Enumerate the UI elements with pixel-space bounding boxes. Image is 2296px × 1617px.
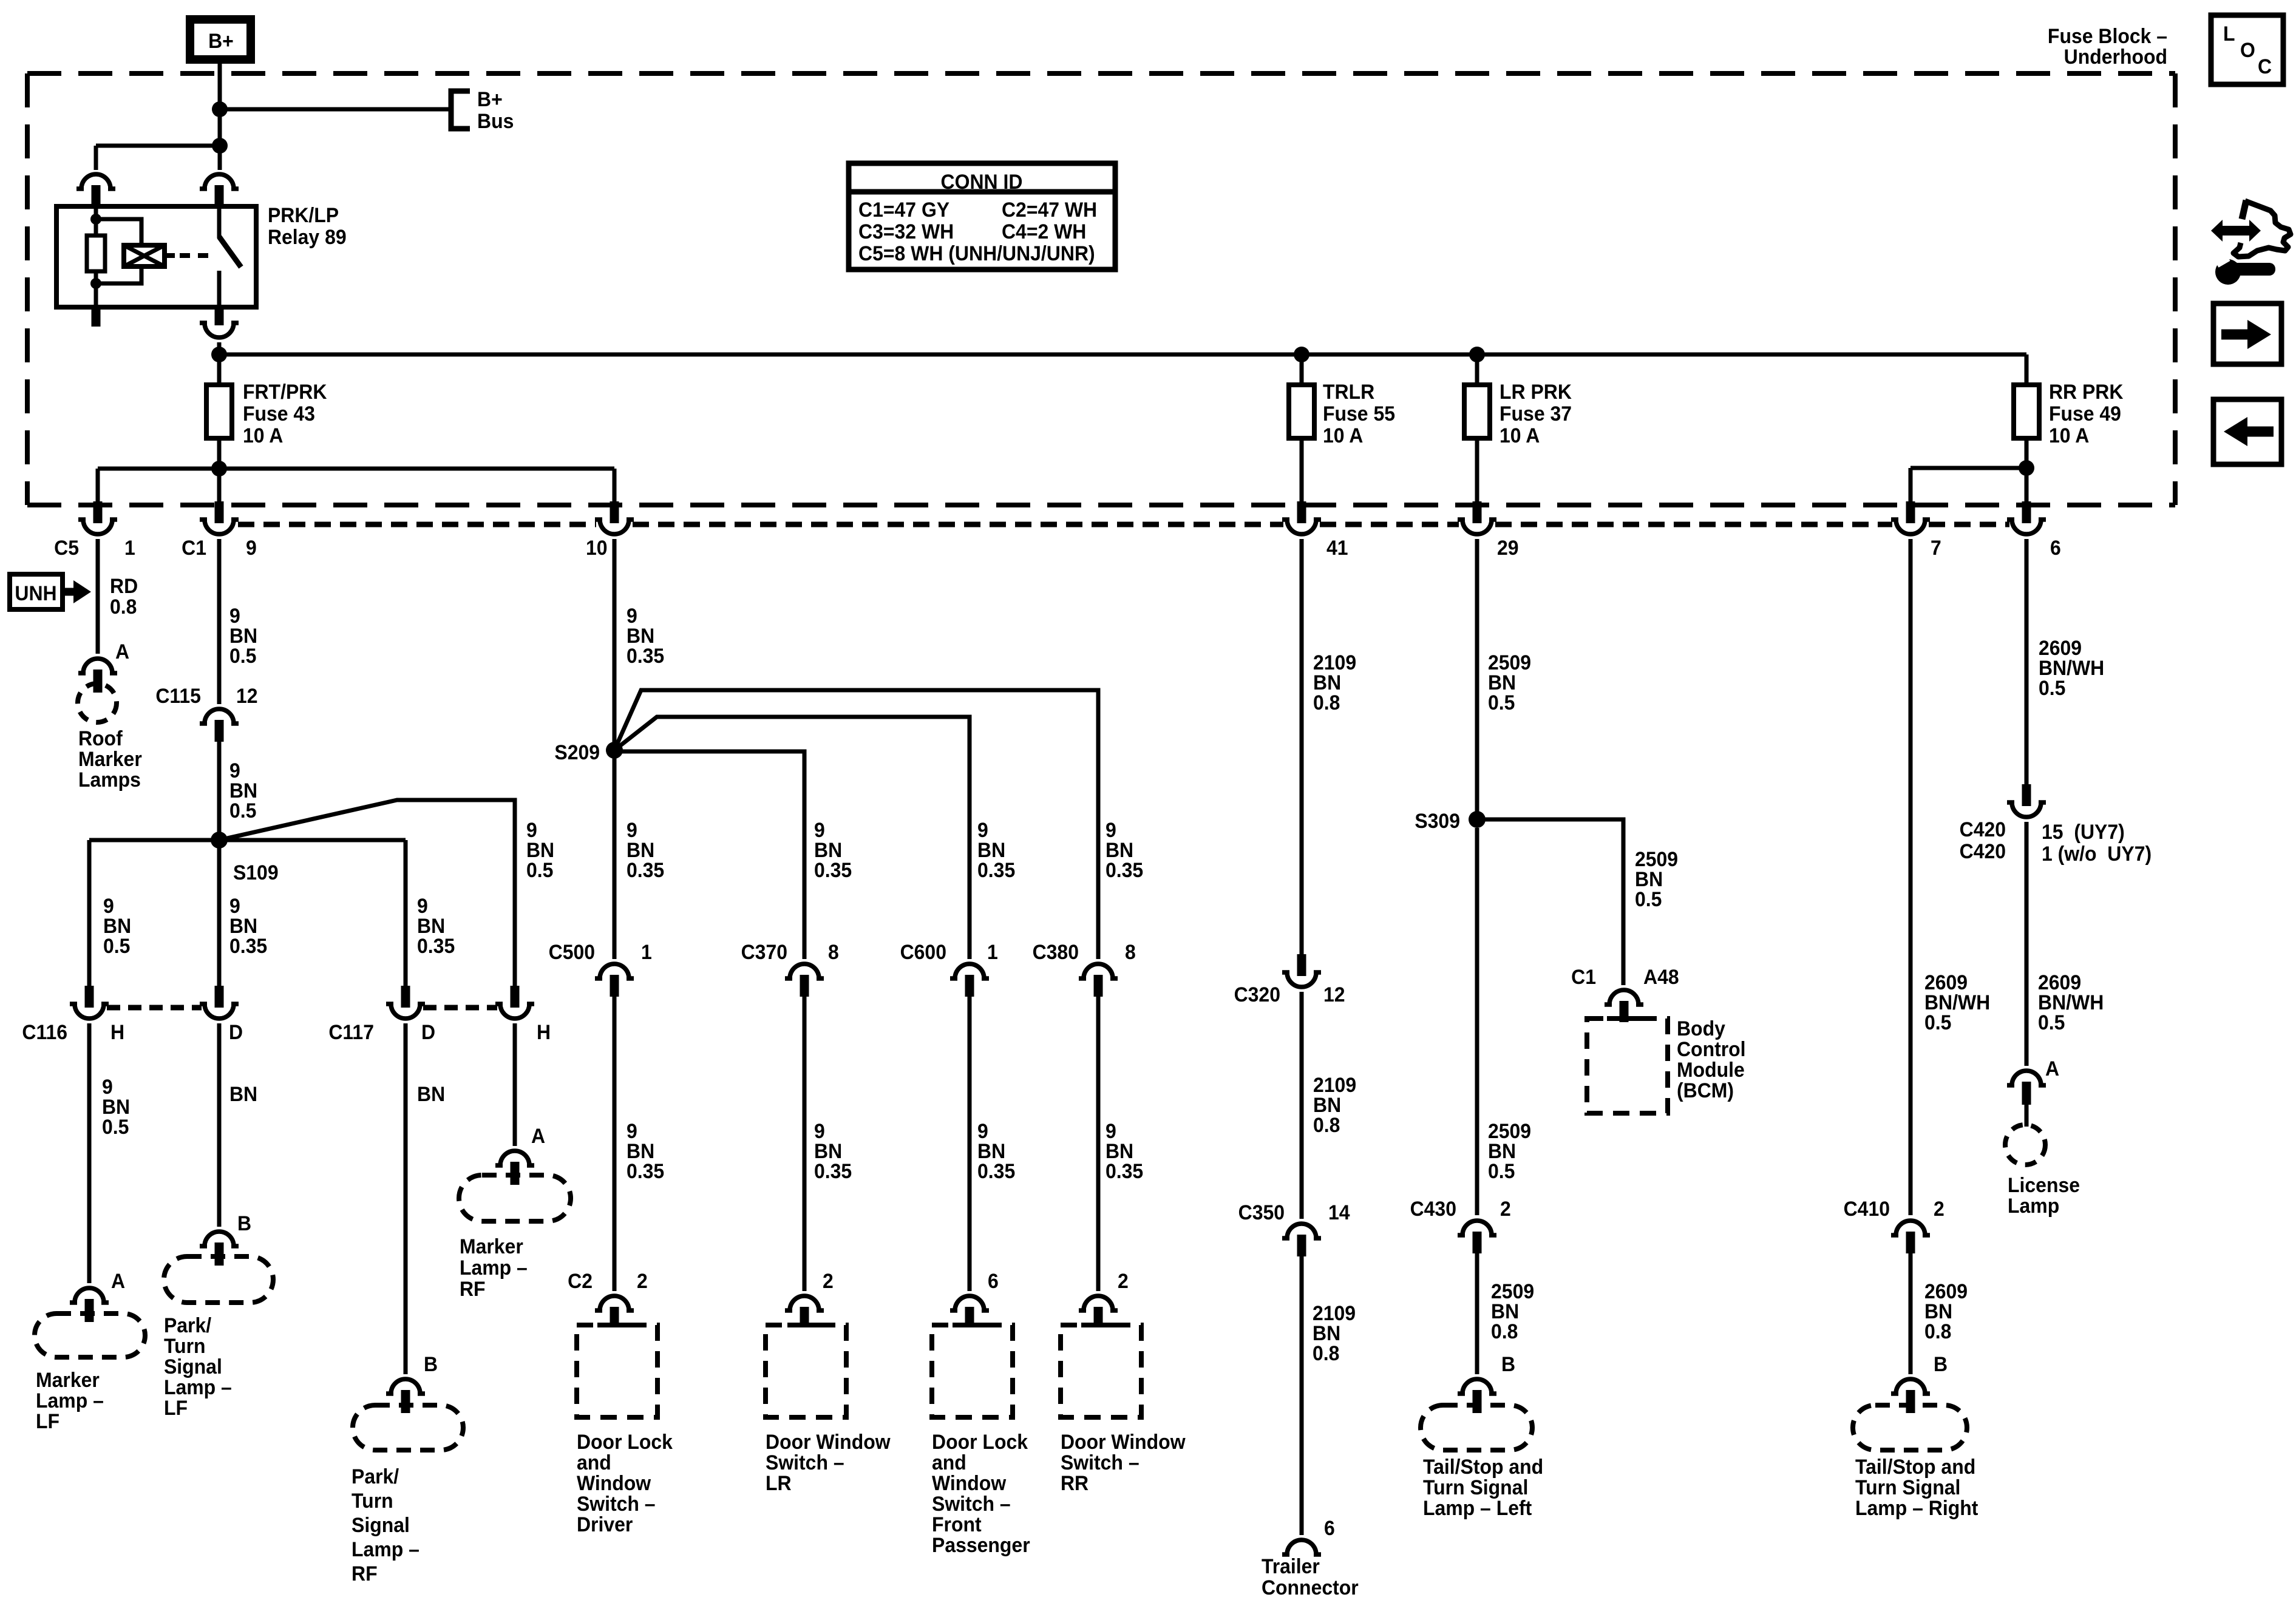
label TRLR Fuse 55 value label <box>1323 380 1395 447</box>
relay actuator dashed link <box>180 253 214 258</box>
label terminal B tail left <box>1501 1352 1515 1375</box>
svg-text:C380: C380 <box>1033 940 1079 963</box>
svg-text:0.35: 0.35 <box>814 1159 852 1182</box>
wire coil wire lower <box>94 271 98 307</box>
svg-text:Switch –: Switch – <box>577 1492 656 1515</box>
fuse RR PRK Fuse 49 <box>2014 385 2039 438</box>
wire fuse 43 drop <box>217 438 222 469</box>
fuse block underhood dashed border <box>27 73 2175 505</box>
connector BCM pin A48 <box>1605 990 1643 1022</box>
svg-text:Turn Signal: Turn Signal <box>1855 1476 1960 1499</box>
svg-text:C116: C116 <box>22 1020 67 1043</box>
label BCM label <box>1677 1017 1746 1102</box>
svg-text:Passenger: Passenger <box>932 1533 1030 1556</box>
label exit pin 7 <box>1931 536 1941 559</box>
svg-text:Signal: Signal <box>352 1513 410 1536</box>
wire relay output drop <box>217 342 222 385</box>
svg-text:A: A <box>111 1269 125 1292</box>
wire license stub <box>2025 1105 2029 1127</box>
label C380 pin 8 <box>1125 940 1136 963</box>
wire solenoid loop top <box>96 219 141 245</box>
connector C410 pin 2 <box>1891 1221 1930 1253</box>
svg-text:Window: Window <box>577 1471 651 1494</box>
connector marker RF terminal A <box>495 1151 534 1185</box>
svg-text:RR: RR <box>1061 1471 1089 1494</box>
label C320 pin 12 label <box>1323 983 1345 1006</box>
svg-text:0.8: 0.8 <box>1924 1320 1951 1343</box>
svg-text:0.35: 0.35 <box>627 1159 664 1182</box>
C117 harness dashed tie <box>423 1005 497 1011</box>
svg-text:C1: C1 <box>182 536 206 559</box>
svg-text:H: H <box>537 1020 551 1043</box>
wire S309 feed <box>1475 539 1479 819</box>
svg-text:2: 2 <box>637 1269 648 1292</box>
connector C5 pin 1 <box>78 501 117 534</box>
label RR switch label <box>1061 1430 1186 1494</box>
svg-text:Connector: Connector <box>1262 1576 1359 1599</box>
label wire 2609 BN WH a <box>1924 971 1990 1034</box>
svg-text:C420: C420 <box>1960 818 2006 841</box>
svg-text:C420: C420 <box>1960 839 2006 863</box>
label C2 label <box>568 1269 593 1292</box>
svg-text:0.5: 0.5 <box>2039 676 2065 699</box>
C116 harness dashed tie <box>107 1005 202 1011</box>
label wire 9 BN 0.35 e <box>814 818 852 881</box>
svg-text:A48: A48 <box>1643 965 1679 988</box>
connector C320 pin 12 <box>1282 954 1321 987</box>
svg-text:Module: Module <box>1677 1058 1745 1081</box>
connector tail left terminal B <box>1458 1379 1496 1413</box>
svg-text:Body: Body <box>1677 1017 1726 1040</box>
svg-text:Switch –: Switch – <box>766 1451 844 1474</box>
label relay label <box>268 203 347 248</box>
label C117 D <box>421 1020 435 1043</box>
label LR switch label <box>766 1430 891 1494</box>
label terminal A roof <box>115 640 129 663</box>
label C430 pin 2 <box>1500 1197 1511 1220</box>
svg-text:0.35: 0.35 <box>1106 1159 1143 1182</box>
lamp outline Roof Marker Lamps <box>78 683 117 722</box>
label tail right label <box>1855 1455 1978 1519</box>
wire driver switch drop <box>613 997 617 1291</box>
connector C420 pin 15 <box>2007 784 2046 817</box>
svg-text:10 A: 10 A <box>1323 424 1363 447</box>
label wire BN a <box>229 1082 257 1105</box>
svg-text:Lamp –: Lamp – <box>460 1256 528 1279</box>
svg-text:UNH: UNH <box>15 581 56 605</box>
svg-text:C370: C370 <box>741 940 787 963</box>
wire tail left feed <box>1475 1253 1479 1374</box>
connector marker LF terminal A <box>70 1288 109 1322</box>
node coil node bottom <box>90 278 101 289</box>
connector door window LR pin 2 <box>785 1296 824 1327</box>
label C370 pin 8 <box>828 940 839 963</box>
connector door lock FP pin 6 <box>950 1296 989 1327</box>
svg-text:Trailer: Trailer <box>1262 1554 1320 1578</box>
node fuse feed junction <box>211 347 227 362</box>
label C370 label <box>741 940 787 963</box>
svg-text:LR PRK: LR PRK <box>1500 380 1572 403</box>
label wire BN b <box>417 1082 445 1105</box>
label C500 pin 1 <box>641 940 652 963</box>
svg-text:8: 8 <box>828 940 839 963</box>
svg-text:C3=32 WH: C3=32 WH <box>858 220 954 243</box>
label Marker Lamp LF label <box>36 1368 104 1432</box>
wire front park distribution <box>98 467 614 471</box>
wire C500 drop <box>613 758 617 959</box>
fuse LR PRK Fuse 37 <box>1464 385 1490 438</box>
node TRLR tap <box>1294 347 1309 362</box>
component box Body Control Module BCM <box>1587 1019 1668 1113</box>
label C115 pin 12 <box>236 684 258 707</box>
svg-text:1: 1 <box>641 940 652 963</box>
node relay feed junction <box>212 138 228 154</box>
svg-text:Door Lock: Door Lock <box>577 1430 673 1453</box>
svg-text:Turn: Turn <box>164 1334 206 1357</box>
svg-text:D: D <box>421 1020 435 1043</box>
svg-text:B: B <box>1934 1352 1948 1375</box>
svg-text:2: 2 <box>1934 1197 1944 1220</box>
svg-text:0.5: 0.5 <box>1924 1011 1951 1034</box>
svg-text:C5=8 WH (UNH/UNJ/UNR): C5=8 WH (UNH/UNJ/UNR) <box>858 242 1095 265</box>
connector relay output <box>200 323 239 337</box>
relay switch blade <box>219 237 241 267</box>
svg-text:2: 2 <box>1500 1197 1511 1220</box>
svg-text:S209: S209 <box>554 741 600 764</box>
svg-text:Lamp –: Lamp – <box>36 1389 104 1412</box>
wire C600 branch <box>614 717 970 959</box>
component box Door Lock and Window Switch Driver <box>577 1325 657 1417</box>
wire fuse 55 drop <box>1300 438 1304 503</box>
wire S109 feed <box>217 742 222 840</box>
lamp outline Park Turn Signal Lamp RF <box>353 1405 463 1450</box>
wire C420 feed <box>2025 539 2029 784</box>
svg-text:Tail/Stop and: Tail/Stop and <box>1855 1455 1975 1478</box>
svg-text:7: 7 <box>1931 536 1941 559</box>
svg-text:0.5: 0.5 <box>1488 691 1515 714</box>
label B+ Bus label <box>477 87 514 132</box>
svg-text:1: 1 <box>987 940 998 963</box>
label exit pin 10 <box>586 536 608 559</box>
svg-text:(BCM): (BCM) <box>1677 1079 1734 1102</box>
connector C1 pin 41 <box>1282 501 1321 534</box>
svg-text:0.5: 0.5 <box>1488 1159 1515 1182</box>
wire marker RF feed <box>513 1023 517 1146</box>
svg-text:0.5: 0.5 <box>229 799 256 822</box>
wire main feed bus <box>219 353 2026 357</box>
svg-text:C320: C320 <box>1234 983 1280 1006</box>
svg-text:Turn: Turn <box>352 1489 393 1512</box>
lamp outline License Lamp <box>2005 1125 2045 1165</box>
wire fuse 49 drop <box>2025 438 2029 468</box>
wire B+ feed drop <box>218 59 222 146</box>
label Park Turn RF label <box>352 1465 419 1585</box>
label exit pin 9 <box>246 536 257 559</box>
svg-text:Lamp – Left: Lamp – Left <box>1423 1496 1532 1519</box>
svg-text:C117: C117 <box>328 1020 374 1043</box>
node splice S309 <box>1469 811 1486 828</box>
label wire 9 BN 0.35 h <box>627 1119 664 1182</box>
label wire 2109 BN 0.8 a <box>1313 651 1356 714</box>
label BCM pin A48 <box>1643 965 1679 988</box>
label C380 label <box>1033 940 1079 963</box>
connector door window RR pin 2 <box>1079 1296 1118 1327</box>
svg-text:Relay 89: Relay 89 <box>268 225 347 248</box>
svg-text:LF: LF <box>164 1396 188 1419</box>
svg-text:C2: C2 <box>568 1269 593 1292</box>
connector C116 pin H <box>70 986 109 1019</box>
label terminal B park LF <box>237 1212 251 1235</box>
label trailer pin 6 <box>1324 1516 1335 1539</box>
connector C350 pin 14 <box>1282 1224 1321 1256</box>
wire coil wire upper <box>94 206 98 237</box>
connector C116 pin D <box>200 986 239 1019</box>
svg-text:B: B <box>237 1212 251 1235</box>
wire C115 feed <box>217 539 222 704</box>
svg-text:0.35: 0.35 <box>627 858 664 881</box>
connector C600 pin 1 <box>950 964 989 997</box>
label driver switch label <box>577 1430 673 1536</box>
node B+ bus junction <box>212 101 228 117</box>
connector body dotted line <box>238 522 596 527</box>
lamp outline Marker Lamp LF <box>35 1314 145 1357</box>
wire C1 drop <box>217 469 222 503</box>
svg-text:0.5: 0.5 <box>2038 1011 2065 1034</box>
svg-text:2: 2 <box>823 1269 834 1292</box>
label C410 pin 2 <box>1934 1197 1944 1220</box>
wire B+ bus lead <box>220 107 449 112</box>
svg-text:B+: B+ <box>477 87 503 110</box>
connector relay pin switch top <box>200 174 239 207</box>
label C410 label <box>1844 1197 1890 1220</box>
svg-text:Marker: Marker <box>36 1368 100 1391</box>
label C320 label <box>1234 983 1280 1006</box>
svg-text:0.35: 0.35 <box>229 934 267 957</box>
resistor relay coil resistor <box>87 236 105 271</box>
connector B+ Bus bracket <box>451 91 470 129</box>
wire RR switch drop <box>1096 997 1101 1291</box>
svg-text:Signal: Signal <box>164 1355 222 1378</box>
svg-text:10 A: 10 A <box>2049 424 2089 447</box>
label exit pin 6 <box>2050 536 2061 559</box>
wire relay coil feed <box>96 144 220 148</box>
svg-text:0.5: 0.5 <box>102 1115 129 1138</box>
relay pin coil bottom stub <box>92 307 101 327</box>
svg-text:CONN ID: CONN ID <box>941 170 1023 193</box>
svg-text:A: A <box>531 1124 545 1147</box>
svg-text:0.8: 0.8 <box>1313 691 1340 714</box>
label C420 pin 15 UY7 <box>2042 820 2125 843</box>
locator LOC icon box <box>2211 15 2283 84</box>
back arrow icon <box>2213 399 2281 464</box>
label wire 2109 BN 0.8 b <box>1313 1073 1356 1136</box>
svg-text:A: A <box>2045 1057 2059 1080</box>
wire switch fixed contact top <box>217 206 222 238</box>
wire fuse 37 feed <box>1475 354 1479 385</box>
label wire 9 BN 0.35 c <box>627 604 664 667</box>
label License Lamp label <box>2008 1173 2080 1217</box>
svg-text:Lamp: Lamp <box>2008 1194 2059 1217</box>
svg-text:BN: BN <box>417 1082 445 1105</box>
svg-text:TRLR: TRLR <box>1323 380 1374 403</box>
connector C117 pin D <box>386 986 425 1019</box>
connector trailer connector pin 6 <box>1282 1540 1321 1554</box>
svg-text:Driver: Driver <box>577 1513 633 1536</box>
component box Door Lock and Window Switch Front Passenger <box>932 1325 1013 1417</box>
wire park RF feed <box>404 1023 408 1374</box>
relay pin switch bottom <box>215 307 224 325</box>
lamp outline Marker Lamp RF <box>459 1175 571 1221</box>
connector roof lamp terminal A <box>78 659 117 693</box>
wire solenoid loop bottom <box>96 266 141 283</box>
label C116 H <box>110 1020 124 1043</box>
label C117 H <box>537 1020 551 1043</box>
svg-text:License: License <box>2008 1173 2080 1196</box>
wire pin7 drop <box>1909 468 1913 503</box>
connector C115 pin 12 <box>200 709 239 742</box>
svg-text:10: 10 <box>586 536 608 559</box>
svg-text:RF: RF <box>460 1277 486 1300</box>
fuse FRT/PRK Fuse 43 <box>206 385 232 438</box>
label wire 9 BN 0.5 a <box>229 604 257 667</box>
svg-text:C600: C600 <box>900 940 946 963</box>
label LR PRK Fuse 37 value label <box>1500 380 1572 447</box>
wire solenoid actuator lead <box>165 253 175 258</box>
label wire 9 BN 0.35 f <box>977 818 1015 881</box>
svg-text:Lamp – Right: Lamp – Right <box>1855 1496 1978 1519</box>
label wire 2509 BN 0.5 a <box>1488 651 1531 714</box>
svg-text:6: 6 <box>2050 536 2061 559</box>
label C117 label <box>328 1020 374 1043</box>
label wire 2509 BN 0.5 b <box>1635 847 1678 910</box>
svg-text:B: B <box>424 1352 438 1375</box>
svg-text:Underhood: Underhood <box>2064 45 2167 68</box>
svg-text:10 A: 10 A <box>243 424 283 447</box>
svg-text:9: 9 <box>246 536 257 559</box>
wire coil drop <box>94 146 98 170</box>
label C116 D <box>229 1020 243 1043</box>
svg-text:1: 1 <box>124 536 135 559</box>
svg-text:0.8: 0.8 <box>1491 1320 1518 1343</box>
label exit label C1 <box>182 536 206 559</box>
label wire 9 BN 0.35 j <box>977 1119 1015 1182</box>
label LR pin 2 <box>823 1269 834 1292</box>
svg-text:Fuse 49: Fuse 49 <box>2049 402 2121 425</box>
connector C1 pin 10 <box>595 501 634 534</box>
label exit pin 1 <box>124 536 135 559</box>
node splice S209 <box>606 742 623 759</box>
node LR PRK tap <box>1469 347 1485 362</box>
wire C370 branch <box>614 751 804 959</box>
label wire 9 BN 0.5 b <box>229 759 257 822</box>
svg-text:FRT/PRK: FRT/PRK <box>243 380 327 403</box>
svg-text:Control: Control <box>1677 1037 1746 1060</box>
svg-text:0.35: 0.35 <box>1106 858 1143 881</box>
label tail left label <box>1423 1455 1543 1519</box>
label passenger pin 6 <box>988 1269 999 1292</box>
svg-text:C430: C430 <box>1410 1197 1456 1220</box>
label RR pin 2 <box>1118 1269 1129 1292</box>
svg-text:29: 29 <box>1497 536 1519 559</box>
relay PRK/LP Relay 89 box <box>56 206 256 307</box>
label RR PRK Fuse 49 value label <box>2049 380 2124 447</box>
svg-text:Fuse 43: Fuse 43 <box>243 402 315 425</box>
label C420 label line2 <box>1960 839 2006 863</box>
wire passenger switch drop <box>968 997 972 1291</box>
svg-text:12: 12 <box>1323 983 1345 1006</box>
label fuse block title <box>2048 24 2167 68</box>
node fuse 43 split <box>211 461 227 476</box>
label FP switch label <box>932 1430 1030 1556</box>
wire marker RF branch <box>219 800 515 986</box>
svg-text:41: 41 <box>1326 536 1348 559</box>
wire fuse 37 drop <box>1475 438 1479 503</box>
svg-text:Roof: Roof <box>78 727 123 750</box>
label C2 pin 2 <box>637 1269 648 1292</box>
wire C116 H drop <box>87 840 92 986</box>
svg-text:Door Window: Door Window <box>766 1430 891 1453</box>
label exit label C5 <box>54 536 79 559</box>
label terminal B tail right <box>1934 1352 1948 1375</box>
svg-text:Park/: Park/ <box>164 1314 211 1337</box>
svg-text:C500: C500 <box>549 940 595 963</box>
svg-text:C1=47 GY: C1=47 GY <box>858 198 949 221</box>
svg-text:Front: Front <box>932 1513 982 1536</box>
lamp outline Park Turn Signal Lamp LF <box>164 1256 273 1303</box>
connector C500 pin 1 <box>595 964 634 997</box>
svg-text:Door Lock: Door Lock <box>932 1430 1028 1453</box>
label C500 label <box>549 940 595 963</box>
svg-text:RR PRK: RR PRK <box>2049 380 2124 403</box>
svg-text:Tail/Stop and: Tail/Stop and <box>1423 1455 1543 1478</box>
label wire 2509 BN 0.5 c <box>1488 1119 1531 1182</box>
connector license terminal A <box>2007 1071 2046 1105</box>
UNH takeout box <box>10 574 63 609</box>
label terminal B park RF <box>424 1352 438 1375</box>
svg-text:0.8: 0.8 <box>1313 1113 1340 1136</box>
svg-text:LR: LR <box>766 1471 792 1494</box>
svg-text:Lamp –: Lamp – <box>164 1375 232 1398</box>
svg-text:S309: S309 <box>1415 809 1460 832</box>
svg-text:Bus: Bus <box>477 109 514 132</box>
label C116 label <box>22 1020 67 1043</box>
fuse TRLR Fuse 55 <box>1289 385 1314 438</box>
label wire 2609 BN WH b <box>2039 636 2104 699</box>
wire rear park branch <box>1911 466 2026 470</box>
svg-text:LF: LF <box>36 1409 59 1432</box>
wire C430 feed <box>1475 828 1479 1215</box>
wire pin10 drop <box>613 469 617 503</box>
svg-text:6: 6 <box>988 1269 999 1292</box>
svg-text:PRK/LP: PRK/LP <box>268 203 339 226</box>
label C350 pin 14 label <box>1328 1201 1350 1224</box>
svg-text:and: and <box>577 1451 611 1474</box>
node coil node top <box>90 214 101 225</box>
label C420 label line1 <box>1960 818 2006 841</box>
label wire 9 BN 0.5 e <box>102 1075 130 1138</box>
label BCM C1 label <box>1571 965 1596 988</box>
lamp outline Tail Stop Turn Signal Lamp Left <box>1421 1405 1532 1450</box>
label UNH label <box>15 581 56 605</box>
label exit pin 29 <box>1497 536 1519 559</box>
component box Door Window Switch LR <box>766 1325 846 1417</box>
connector tail right terminal B <box>1891 1379 1930 1413</box>
svg-text:Switch –: Switch – <box>1061 1451 1140 1474</box>
wire switch drop <box>218 146 222 170</box>
node rear park split <box>2019 460 2034 476</box>
wire roof lamp feed <box>96 539 100 654</box>
wire S109 left branch <box>89 840 219 986</box>
